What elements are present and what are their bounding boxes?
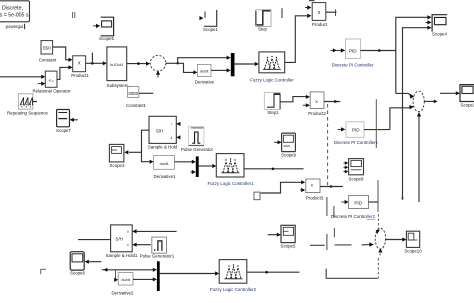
PID block Discrete PI Controller (345, 39, 360, 59)
long vertical net segment (x378) (377, 180, 379, 212)
svg-text:Step1: Step1 (267, 110, 279, 115)
stub into Product2 in2 (303, 103, 310, 107)
fuzzy logic controller block (259, 52, 285, 73)
sample and hold in1 arrow (flipped, from right) (176, 122, 180, 126)
svg-text:Ts = 5e-005 s.: Ts = 5e-005 s. (0, 13, 30, 19)
wire Mux3 out to Fuzzy Logic Controller2 (160, 271, 220, 275)
PID block Discrete PI Controller2 (349, 196, 369, 209)
svg-text:Product2: Product2 (308, 111, 326, 116)
stub into Product3 in2 (300, 188, 305, 192)
product Product2 out wire (324, 100, 340, 104)
constant block Constant (550) (41, 41, 53, 54)
product Product2 in1 arrow (306, 95, 310, 99)
wire into Scope7 (from right) (70, 118, 78, 122)
svg-text:Sample & Hold: Sample & Hold (148, 145, 178, 150)
constant block Constant1 (3000) (128, 87, 139, 98)
wire small block to Product3 in1 (261, 182, 302, 193)
scope Scope3 icon (109, 144, 124, 162)
wire Discrete PI Controller1 out (364, 129, 390, 131)
svg-text:3000: 3000 (128, 91, 138, 96)
product Product1 (73, 56, 86, 72)
wire bend into Derivative2 (114, 270, 117, 280)
wire Derivative out to Mux in2 (211, 68, 231, 72)
wire into Relational Operator in1 (0, 75, 45, 79)
junction dot on Subsystem out (137, 62, 140, 65)
bottom row wire into Mux3 (102, 268, 157, 272)
svg-text:du/dt: du/dt (121, 278, 130, 282)
step block Step1 (264, 93, 280, 110)
product Product (top) (312, 3, 326, 21)
sum1 output wire (424, 100, 437, 104)
stub into Relational Operator in2 (38, 82, 46, 86)
powergui block (0, 1, 30, 22)
PID block Discrete PI Controller input arrows (331, 48, 346, 52)
wire Sample & Hold out (left side) down to Derivative1 (142, 130, 151, 162)
scope Scope8 icon (3 inputs) (349, 159, 364, 175)
Constant1 out wire (139, 92, 154, 94)
wire Fuzzy Logic Controller1 out (244, 168, 304, 170)
wire Relational Operator out to Product1 in2 (57, 67, 69, 79)
fuzzy logic controller2 block (219, 260, 247, 284)
stub into Mux2 in2 (191, 170, 196, 174)
wire into sum1 in1 (396, 93, 414, 96)
svg-text:powergui: powergui (6, 24, 24, 29)
svg-text:Scope9: Scope9 (281, 152, 296, 157)
scope Scope4 icon (432, 15, 447, 32)
sample and hold1 block (111, 225, 133, 252)
sum2 output wire to Scope10 (386, 237, 407, 241)
sum2 bottom arrow (378, 248, 382, 252)
wire into sum1 in2 from Discrete PI Controller1 (390, 107, 413, 130)
vertical wire into sum1 bottom (417, 112, 421, 202)
svg-text:Constant: Constant (39, 57, 57, 62)
svg-text:550: 550 (43, 46, 51, 51)
bottom U wire (326, 269, 378, 279)
small block (unit delay) (254, 192, 260, 200)
svg-text:du/dt: du/dt (200, 69, 210, 74)
svg-text:Discrete PI Controller: Discrete PI Controller (332, 62, 374, 67)
derivative block Derivative (197, 64, 211, 76)
svg-text:Fuzzy Logic Controller1: Fuzzy Logic Controller1 (207, 181, 254, 186)
wire sum0 out down to Derivative (178, 63, 194, 72)
svg-text:Derivative: Derivative (195, 80, 215, 85)
svg-text:Scope7: Scope7 (56, 128, 71, 133)
mux Mux1 (black bar) (231, 53, 235, 76)
scope Scope4 in3 arrow (427, 26, 431, 30)
svg-text:Scope2: Scope2 (461, 103, 474, 108)
sum junction sum2 (dashed ellipse) (375, 228, 385, 249)
svg-text:Subsystem: Subsystem (107, 83, 129, 88)
svg-text:Product1: Product1 (71, 73, 89, 78)
pulse generator1 block (152, 237, 167, 253)
scope Scope9 icon (mid) (282, 133, 296, 152)
svg-text:Fuzzy Logic Controller: Fuzzy Logic Controller (250, 77, 294, 82)
scope Scope5 (top-left) input arrow (93, 24, 100, 28)
repeating sequence block (18, 94, 33, 109)
scope Scope1 icon (partial) (204, 10, 217, 26)
svg-text:Fuzzy Logic Controller2: Fuzzy Logic Controller2 (210, 287, 257, 292)
svg-text:Scope1: Scope1 (203, 27, 218, 32)
sample and hold in2 arrow (flipped, from right) (176, 135, 180, 139)
svg-text:In1Out1: In1Out1 (110, 63, 124, 67)
mux Mux3 (black bar) (157, 261, 160, 291)
scope Scope6 icon (70, 252, 84, 270)
wire to Scope4 in3 (long vertical dangling) (401, 28, 428, 201)
svg-text:Scope5: Scope5 (281, 244, 296, 249)
PID block Discrete PI Controller2 input arrow (342, 200, 349, 204)
derivative block Derivative2 input arrow (114, 278, 118, 282)
svg-text:Step: Step (258, 27, 268, 32)
junction dot on Product1 out (91, 62, 94, 65)
scope Scope8 input arrows (343, 161, 348, 173)
svg-text:Constant1: Constant1 (126, 103, 147, 108)
svg-text:Discrete PI Controller1: Discrete PI Controller1 (334, 140, 379, 145)
svg-text:c: c (127, 243, 129, 247)
dashed wire below sum2 (379, 254, 381, 258)
subsystem block (107, 47, 127, 81)
svg-text:Derivative1: Derivative1 (154, 174, 177, 179)
scope Scope10 icon (406, 231, 419, 247)
product Product2 (310, 92, 324, 109)
wire into Scope8b (268, 233, 281, 237)
svg-text:<=: <= (49, 78, 55, 83)
scope Scope7 icon (57, 110, 70, 127)
wire above Product (309, 0, 315, 2)
wire branch to Scope3 (124, 150, 141, 154)
svg-text:Scope5: Scope5 (99, 36, 114, 41)
svg-text:Pulse Generator1: Pulse Generator1 (140, 253, 175, 258)
svg-text:PID: PID (354, 200, 362, 205)
svg-text:Scope8: Scope8 (349, 176, 364, 181)
wire segment (333, 228, 335, 237)
wire into Scope9 (274, 140, 282, 144)
stub wire up from junction (91, 53, 93, 64)
wire sum0 out up to Mux in1 (178, 58, 227, 64)
scope Scope4 in1 arrow (427, 15, 431, 19)
svg-text:Sample & Hold1: Sample & Hold1 (106, 253, 138, 258)
svg-text:Product: Product (312, 22, 328, 27)
svg-text:Scope4: Scope4 (432, 32, 447, 37)
tick marks near top (73, 12, 75, 18)
svg-text:s: s (127, 230, 129, 234)
wire segment down from Product3 out (326, 197, 328, 216)
sum0 output wire (166, 62, 178, 64)
wire Constant to Product1 in1 (53, 47, 69, 60)
scope Scope1 input arrow (199, 16, 203, 20)
product Product in2 arrow (307, 14, 311, 18)
junction dot on Fuzzy2 out (265, 271, 268, 274)
wire PID out to right (360, 50, 395, 52)
sample and hold1 in1 arrow + wire (132, 229, 176, 233)
relational operator block (45, 71, 57, 87)
PID block Discrete PI Controller1 input arrow (338, 127, 346, 131)
svg-text:Derivative2: Derivative2 (112, 290, 135, 295)
derivative block Derivative1 (154, 156, 175, 170)
short wire tick near Step (281, 8, 283, 18)
wire Product3 out (320, 186, 343, 188)
wire Derivative1 out to Mux2 (175, 160, 196, 164)
svg-text:Discrete PI Controller2: Discrete PI Controller2 (331, 214, 376, 219)
svg-text:Scope6: Scope6 (70, 270, 85, 275)
wire from Fuzzy Logic Controller up to Product in2 (285, 16, 307, 63)
svg-text:k: k (171, 136, 173, 140)
sample and hold1 out wire (left) (78, 239, 111, 241)
svg-text:Scope10: Scope10 (404, 248, 422, 253)
wire into Scope2 (440, 91, 460, 95)
wire into Scope6 (from right) (85, 260, 102, 264)
svg-text:PID: PID (352, 128, 360, 133)
wire segment (326, 234, 328, 250)
mux Mux2 (black bar) (196, 156, 199, 177)
sample and hold1 in2 arrow + wire from Pulse Generator1 (132, 243, 151, 247)
svg-text:Discrete,: Discrete, (2, 6, 24, 12)
wire Discrete PI Controller2 out (369, 201, 379, 203)
long vertical net segment (x376) (375, 99, 377, 148)
scope Scope5 icon (101, 17, 114, 36)
sum junction sum0 (dashed circle) (150, 55, 166, 71)
junction dot on Fuzzy1 out (272, 168, 275, 171)
junction dot on PID out wire (378, 49, 381, 52)
svg-text:S/H: S/H (116, 237, 123, 242)
junction dot Product3 out (330, 185, 332, 187)
wire Product1 out to Subsystem (86, 61, 107, 65)
sum0 bottom arrow (156, 71, 160, 78)
product Product in1 arrow (305, 5, 311, 9)
svg-text:Repeating Sequence: Repeating Sequence (7, 110, 49, 115)
fuzzy logic controller1 block (216, 154, 244, 177)
svg-text:PID: PID (349, 48, 357, 53)
product Product output wire (326, 9, 337, 16)
step block Step (256, 10, 271, 27)
scope Scope4 in2 stub arrow (426, 20, 432, 24)
wire Step1 out to Product2 in1 (280, 97, 306, 102)
PID block Discrete PI Controller1 (346, 122, 364, 138)
svg-text:Scope3: Scope3 (110, 163, 125, 168)
product Product3 (306, 179, 320, 193)
sum junction sum1 (dashed ellipse) (413, 91, 424, 112)
wire to Scope4 in1 (long vertical from PID net) (396, 17, 428, 93)
svg-text:Relational Operator: Relational Operator (32, 89, 71, 94)
sample and hold block (149, 116, 176, 143)
wire into sum2 in2 (broken segments) (310, 244, 370, 247)
svg-text:Pulse Generator: Pulse Generator (181, 147, 214, 152)
wire Mux1 out to Fuzzy Logic Controller (235, 62, 259, 66)
svg-text:du/dt: du/dt (160, 161, 170, 166)
wire Fuzzy Logic Controller2 out (247, 271, 300, 273)
pulse generator block (189, 127, 204, 146)
wire Mux2 out to Fuzzy Logic Controller1 (199, 164, 217, 168)
svg-text:S/H: S/H (156, 129, 163, 134)
scope Scope8b icon (bottom mid) (281, 225, 295, 242)
svg-text:Product3: Product3 (306, 195, 324, 200)
wire Subsystem out to sum0 (127, 62, 150, 66)
small L wire mark (bottom left) (41, 269, 46, 274)
repeating sequence out stub (33, 101, 37, 103)
wire segment (333, 206, 335, 217)
dashed wire Product2 to Product3 out (327, 104, 329, 185)
wire Derivative2 out to Mux3 (133, 277, 157, 281)
scope Scope2 icon (460, 85, 474, 102)
dashed net segment into sum2 in1 (377, 214, 379, 229)
derivative block Derivative2 (118, 273, 133, 285)
junction dot (177, 62, 179, 64)
dashed vertical of U wire up to sum2 (377, 258, 379, 278)
